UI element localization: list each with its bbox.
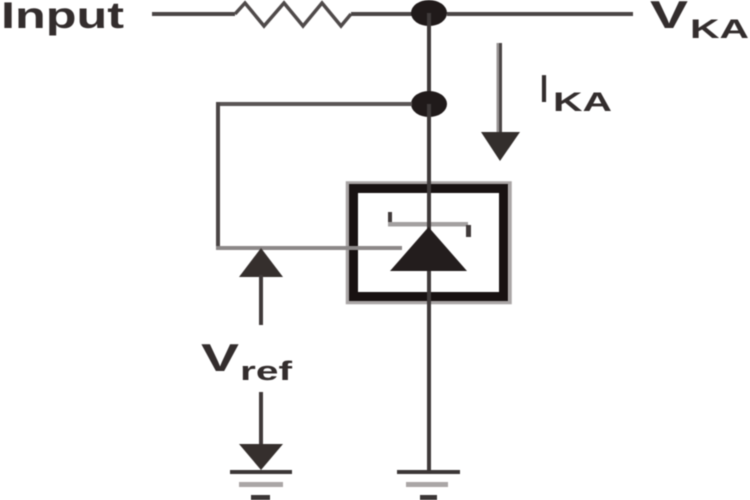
svg-text:V: V [650,0,688,37]
wire node B left (feedback top) [216,102,412,106]
wire resistor to node A [351,12,413,16]
svg-text:KA: KA [690,14,749,44]
resistor R1 [235,3,351,26]
TL431 cathode bar left tick [388,212,392,224]
ground left bar 3 [251,495,270,500]
wire node B through U1 to ground [427,104,431,472]
wire node A to node B [427,13,431,104]
node A junction dot [411,0,447,26]
TL431 U1 package box gray outline [348,183,511,303]
wire input to resistor [152,12,235,16]
wire feedback to ref pin [216,246,402,250]
TL431 triangle [390,227,467,271]
svg-text:KA: KA [553,87,612,117]
wire feedback vertical [216,102,220,248]
TL431 U1 package box [354,189,504,297]
svg-text:ref: ref [240,356,294,386]
ground left bar 1 [230,470,292,474]
ground left bar 2 [239,482,283,487]
wire node A to VKA [447,12,633,16]
ground right bar 2 [406,482,448,487]
Vref arrow lower line [259,392,263,444]
Vref arrow upper line [259,275,263,325]
node B junction dot [411,91,447,117]
svg-text:I: I [540,68,548,111]
Vref arrow down head [239,444,283,470]
Vref arrow up head [239,248,283,277]
IKA current arrow line [497,43,500,133]
svg-text:Input: Input [1,0,124,36]
svg-text:V: V [201,337,239,380]
TL431 cathode bar right tick [466,225,471,237]
ground right bar 3 [420,495,437,500]
TL431 cathode bar [388,222,468,227]
IKA arrowhead [481,132,520,161]
ground right bar 1 [397,470,460,474]
